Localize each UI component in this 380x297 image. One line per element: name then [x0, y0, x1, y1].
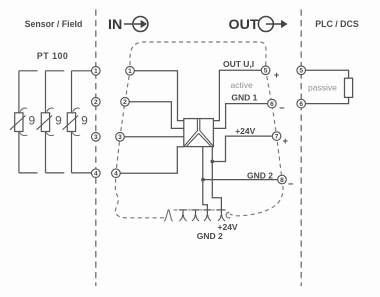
terminal 3 (field side): [92, 133, 101, 142]
terminal 4 (field side): [92, 169, 101, 178]
wire: isolator supply to bus contact (+24V): [212, 147, 221, 210]
svg-text:7: 7: [275, 134, 279, 141]
svg-text:OUT U,I: OUT U,I: [223, 59, 254, 69]
wire: isolator output to terminal 5 (OUT U,I): [213, 70, 261, 120]
isolation amplifier U1 (3-port isolator box): [184, 119, 214, 147]
wire: terminal 1 to isolator input: [134, 71, 184, 121]
svg-text:+: +: [283, 136, 289, 147]
wire: isolator supply to bus contact (GND 2): [203, 147, 208, 210]
terminal 5 (module output OUT U,I): [261, 66, 270, 75]
terminal 3 (module input): [116, 133, 125, 142]
terminal 8 (module GND 2): [278, 175, 287, 184]
svg-text:Sensor / Field: Sensor / Field: [25, 19, 83, 29]
junction node: GND 2: [201, 178, 205, 182]
svg-text:+24V: +24V: [235, 126, 255, 136]
svg-text:IN: IN: [108, 17, 122, 33]
wire: isolator output to terminal 6 (GND 1): [213, 104, 267, 129]
svg-text:3: 3: [118, 134, 122, 141]
RTD sensor B3 (PT100 #3): [63, 71, 92, 173]
bus contact 4 (+24V): [217, 210, 225, 221]
IN port icon (circle with inward arrow): [124, 17, 148, 32]
OUT port icon (circle with outward arrow): [258, 17, 287, 32]
terminal 6 (PLC side): [297, 99, 306, 108]
svg-text:6: 6: [299, 101, 303, 108]
svg-text:4: 4: [94, 171, 98, 178]
svg-text:1: 1: [94, 68, 98, 75]
bus contact hook (right end): [226, 212, 230, 218]
RTD sensor B1 (PT100 #1): [10, 71, 38, 173]
svg-text:GND 2: GND 2: [247, 170, 273, 180]
RTD sensor B2 (PT100 #2): [37, 71, 65, 173]
svg-text:2: 2: [94, 99, 98, 106]
junction node: +24V: [210, 160, 214, 164]
wire: PLC terminal 5 to passive load: [306, 70, 349, 78]
wire: passive load to PLC terminal 6: [306, 97, 349, 103]
wire: terminal 4 to isolator input: [120, 147, 184, 174]
wire: terminal 3 to isolator input: [124, 136, 184, 138]
wire: +24V terminal 7 to supply node: [212, 136, 272, 161]
terminal 6 (module output GND 1): [268, 99, 277, 108]
svg-text:GND 1: GND 1: [231, 93, 257, 103]
module dashed outline (left side, top, right side): [115, 42, 283, 218]
svg-text:−: −: [288, 179, 294, 190]
svg-text:3: 3: [94, 134, 98, 141]
terminal 7 (module +24V): [272, 132, 281, 141]
svg-text:9: 9: [55, 113, 62, 127]
terminal 1 (module input): [126, 67, 135, 76]
svg-text:1: 1: [128, 68, 132, 75]
bus contact spring (leftmost): [164, 210, 173, 221]
terminal 2 (field side): [92, 98, 101, 107]
terminal 4 (module input): [112, 169, 121, 178]
svg-text:passive: passive: [308, 83, 337, 93]
terminal 1 (field side): [92, 67, 101, 76]
svg-text:5: 5: [299, 68, 303, 75]
module dashed outline: bottom dashes between bus contacts: [174, 209, 218, 211]
svg-text:GND 2: GND 2: [197, 231, 223, 241]
svg-text:OUT: OUT: [229, 17, 259, 33]
svg-text:−: −: [279, 103, 285, 114]
separator line: module | PLC/DCS (dashed vertical): [300, 10, 302, 287]
svg-text:9: 9: [81, 113, 88, 127]
terminal 2 (module input): [121, 98, 130, 107]
svg-text:+: +: [274, 70, 280, 81]
bus contact 1: [179, 210, 187, 221]
svg-text:6: 6: [270, 101, 274, 108]
svg-text:PLC / DCS: PLC / DCS: [315, 19, 359, 29]
bus contact 3 (GND 2): [203, 210, 211, 221]
terminal 5 (PLC side): [297, 66, 306, 75]
bus contact 2: [191, 210, 199, 221]
svg-text:4: 4: [114, 171, 118, 178]
svg-text:active: active: [231, 80, 253, 90]
wire: terminal 2 to isolator input: [129, 102, 184, 129]
svg-text:PT 100: PT 100: [37, 51, 68, 61]
svg-text:5: 5: [264, 68, 268, 75]
svg-text:8: 8: [280, 177, 284, 184]
resistor: passive load: [345, 78, 353, 97]
wire: GND 2 terminal 8 to ground node: [203, 179, 278, 181]
svg-text:9: 9: [29, 113, 36, 127]
svg-text:2: 2: [123, 99, 127, 106]
separator line: Sensor/Field | module (dashed vertical): [95, 10, 97, 287]
